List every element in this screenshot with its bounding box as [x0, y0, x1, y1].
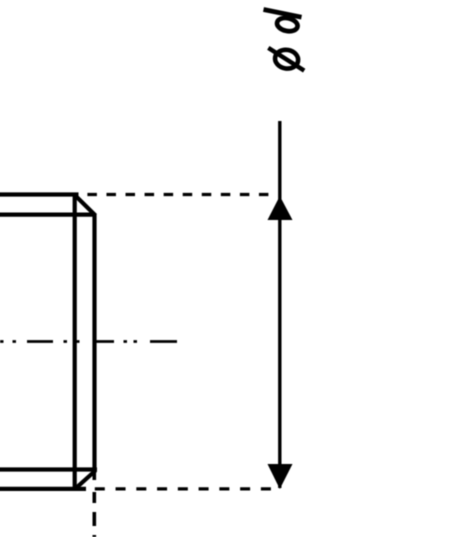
top extension line (dashed): [87, 193, 268, 196]
centerline (dash-dot-dot axis line): [0, 340, 177, 343]
bottom extension line (dashed): [95, 487, 271, 490]
top chamfer diagonal: [75, 196, 95, 216]
outer top edge (thread major diameter, top): [0, 192, 79, 196]
bottom vertical dashed line: [93, 471, 97, 537]
inner bottom edge (thread root, bottom): [0, 467, 97, 471]
dimension line (vertical): [278, 121, 281, 488]
end face vertical edge: [92, 215, 96, 472]
top arrowhead (points up to outer top edge): [268, 196, 293, 220]
bottom arrowhead (points down to outer bottom edge): [268, 464, 293, 489]
inner top edge (thread root, top): [0, 213, 93, 217]
dimension label "ø d" (rotated 90°, drawn as shapes): glyph ø: [268, 48, 304, 71]
bottom chamfer diagonal: [76, 471, 96, 489]
dimension label "ø d": glyph d: [264, 10, 302, 34]
chamfer start vertical edge: [73, 193, 77, 492]
outer bottom edge (thread major diameter, bottom): [0, 487, 86, 491]
